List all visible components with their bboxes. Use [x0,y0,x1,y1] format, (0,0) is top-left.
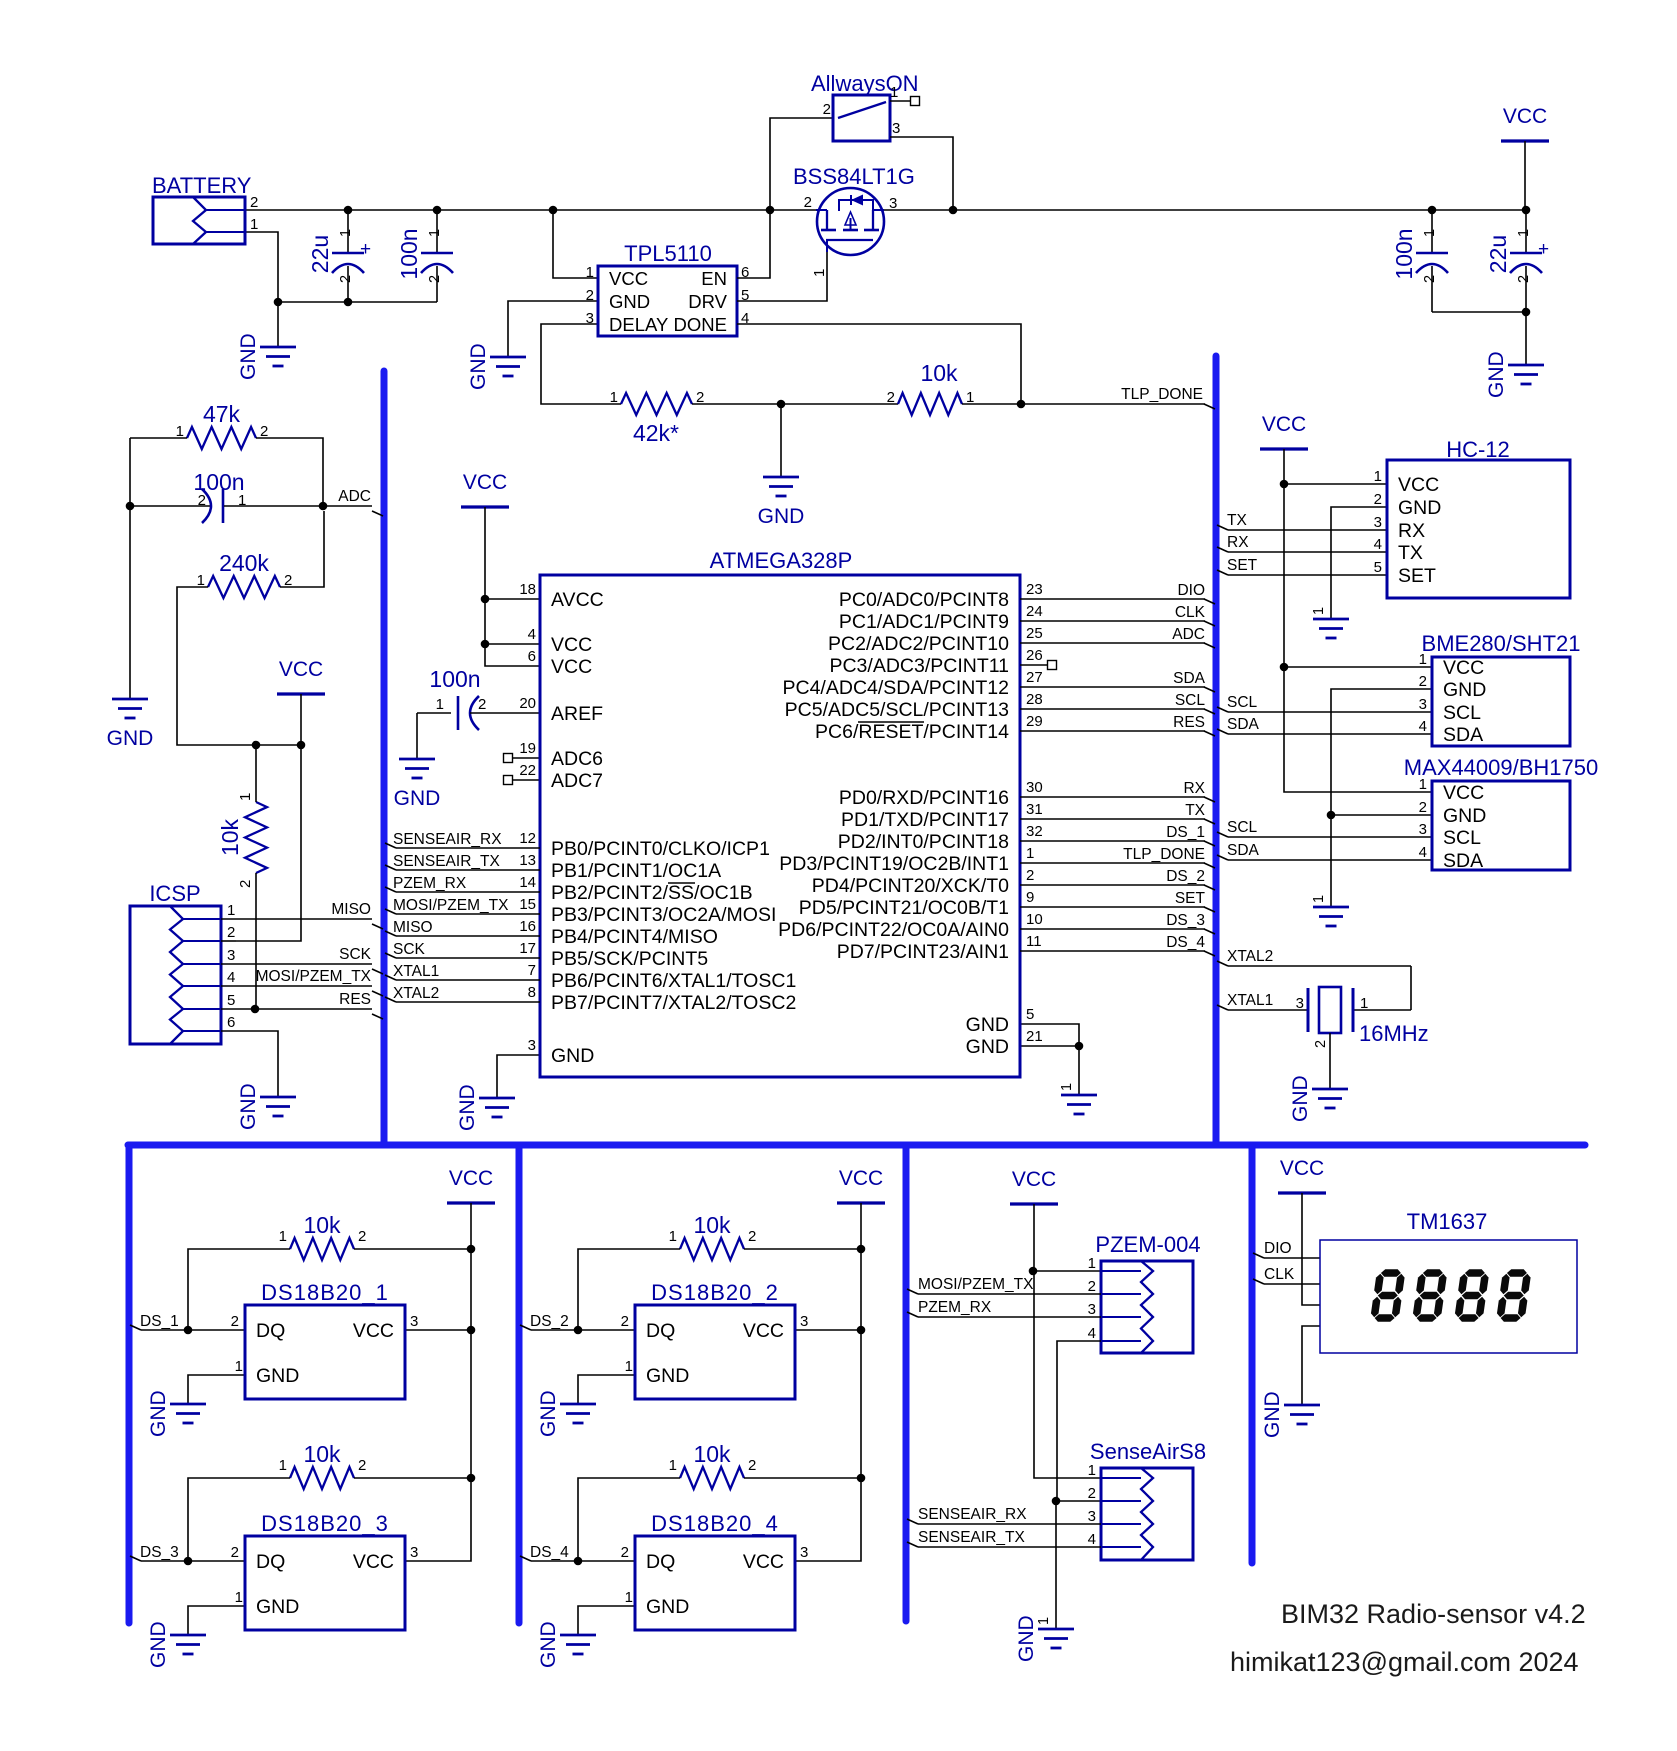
net label ADC (ATMEGA right) [1172,626,1205,643]
svg-text:himikat123@gmail.com 2024: himikat123@gmail.com 2024 [1230,1647,1579,1677]
junction rail/switch pin3 [949,206,958,215]
IC U5 MAX44009/BH1750 [1404,755,1598,872]
junction DQ DS_1 [184,1326,193,1335]
svg-text:1: 1 [1088,1255,1096,1272]
svg-text:PZEM_RX: PZEM_RX [393,875,467,892]
svg-text:CLK: CLK [1264,1266,1295,1283]
svg-text:1: 1 [610,389,618,406]
wire ATMEGA GND pin5 down [1020,1024,1079,1095]
svg-text:10k: 10k [693,1441,731,1467]
svg-text:PZEM_RX: PZEM_RX [918,1299,992,1316]
svg-text:GND: GND [467,343,490,390]
svg-text:BME280/SHT21: BME280/SHT21 [1422,631,1581,656]
svg-text:PB0/PCINT0/CLKO/ICP1: PB0/PCINT0/CLKO/ICP1 [551,838,770,860]
svg-text:RX: RX [1398,520,1425,542]
junction battery gnd node [274,298,283,307]
wire net CLK (TM1637) [1253,1279,1320,1284]
wire 22u bottom lead [347,266,349,302]
wire 100n right bottom lead [1431,266,1433,312]
junction 10k/RES [251,1005,260,1014]
net label XTAL1 [1227,992,1273,1009]
power VCC (DS18B20 DS_2/DS_4) [837,1167,885,1203]
svg-text:2: 2 [621,1544,629,1561]
svg-text:100n: 100n [1391,228,1417,279]
wire ICSP pin1 MISO to bus [221,919,383,929]
junction VCC pin3 1 [467,1326,476,1335]
wire net XTAL2 (ATMEGA left) [385,997,540,1002]
svg-text:22u: 22u [307,235,333,273]
svg-text:GND: GND [1443,805,1486,827]
wire 100n to ADC node [224,505,372,507]
svg-text:3: 3 [1419,821,1427,838]
wire ICSP pin2 stub [221,940,236,942]
svg-text:XTAL2: XTAL2 [1227,948,1273,965]
wire 240k pin1 down to VCC node [177,587,256,745]
wire net TX (ATMEGA right) [1020,819,1215,824]
svg-text:SCL: SCL [1443,827,1481,849]
wire VCC bar to rail [1524,141,1526,210]
svg-text:GND: GND [147,1621,170,1668]
junction VCC pin4 [481,640,490,649]
svg-text:2: 2 [586,287,594,304]
wire PZEM pin4 down to SenseAir pin2 [1057,1341,1101,1501]
svg-text:1: 1 [669,1457,677,1474]
wire 10k pin2 to VCC riser [354,1477,471,1479]
svg-text:SDA: SDA [1227,842,1260,859]
net label DS_4 (ATMEGA right) [1166,934,1205,951]
ground (battery) [237,333,296,380]
net label SDA (BME280) [1227,716,1260,733]
junction VCC/10k DS_4 [857,1474,866,1483]
wire to BME280 VCC pin1 [1284,666,1432,668]
power VCC (main rail) [1501,105,1549,141]
wire crystal pin2 to ground [1329,1033,1331,1089]
bus left vertical (ATMEGA left nets) [381,371,388,1145]
net label XTAL2 [1227,948,1273,965]
no-connect square ADC7 [504,776,513,785]
junction ADC node [319,502,328,511]
svg-text:2: 2 [1374,491,1382,508]
wire VCC to ICSP pin2 [236,745,301,941]
svg-text:DS_1: DS_1 [1166,824,1205,841]
IC U4 BME280/SHT21 [1419,631,1581,746]
wire VCC riser [860,1249,862,1478]
svg-text:PD5/PCINT21/OC0B/T1: PD5/PCINT21/OC0B/T1 [799,897,1009,919]
junction rail/100n right [1428,206,1437,215]
svg-text:MISO: MISO [393,919,433,936]
svg-text:1: 1 [250,216,258,233]
wire 10k pin2 to VCC riser [744,1477,861,1479]
wire TPL5110 EN pin6 to switch pin2 [737,118,833,278]
net label SET (HC-12) [1227,557,1258,574]
ground (SenseAir) [1015,1615,1074,1662]
svg-text:SDA: SDA [1443,724,1483,746]
svg-text:2: 2 [427,275,443,283]
svg-text:SET: SET [1227,557,1258,574]
svg-text:14: 14 [519,874,536,891]
svg-text:2: 2 [1419,799,1427,816]
svg-text:SENSEAIR_RX: SENSEAIR_RX [918,1506,1027,1523]
resistor 10k (RES pullup) [217,793,267,888]
svg-text:PB3/PCINT3/OC2A/MOSI: PB3/PCINT3/OC2A/MOSI [551,904,776,926]
bus bottom section divider 1 [126,1145,133,1623]
net label MOSI/PZEM_TX (PZEM) [918,1276,1034,1293]
svg-text:19: 19 [519,740,536,757]
svg-text:VCC: VCC [1443,782,1484,804]
wire GND pin1 to ground (bottom) [188,1606,245,1635]
svg-text:DS_4: DS_4 [530,1544,569,1561]
svg-text:20: 20 [519,695,536,712]
svg-text:5: 5 [227,992,235,1009]
svg-text:2: 2 [1026,867,1034,884]
junction 47k/100n/gnd [126,502,135,511]
power VCC (PZEM/SenseAir) [1010,1168,1058,1204]
wire 10k pin1 down to DQ [578,1249,680,1330]
svg-text:VCC: VCC [1443,657,1484,679]
wire net DS_1 from bus [130,1325,245,1330]
junction SenseAir pin2 [1052,1497,1061,1506]
svg-text:GND: GND [646,1365,689,1387]
svg-text:15: 15 [519,896,536,913]
wire VCC riser [470,1249,472,1478]
wire net SDA (MAX44009) [1217,855,1432,860]
svg-text:1: 1 [625,1358,633,1375]
svg-text:GND: GND [1485,351,1508,398]
svg-text:1: 1 [235,1358,243,1375]
wire VCC to MAX44009 VCC pin1 [1284,667,1432,792]
wire to HC-12 VCC pin1 [1284,483,1387,485]
svg-text:240k: 240k [219,550,269,576]
svg-text:GND: GND [456,1084,479,1131]
svg-text:6: 6 [528,648,536,665]
svg-text:GND: GND [107,727,154,750]
wire GND pin1 to ground [578,1375,635,1404]
svg-text:22: 22 [519,762,536,779]
svg-text:ADC: ADC [1172,626,1205,643]
svg-text:31: 31 [1026,801,1043,818]
power VCC (DS18B20 DS_1/DS_3) [447,1167,495,1203]
display U6 TM1637 [1320,1209,1577,1353]
svg-text:PB4/PCINT4/MISO: PB4/PCINT4/MISO [551,926,718,948]
connector BATTERY [152,173,258,244]
svg-text:RES: RES [1173,714,1205,731]
junction DQ DS_3 [184,1557,193,1566]
wire 42k pin2 to 10k pin2 [692,403,898,405]
svg-text:VCC: VCC [1503,105,1547,128]
wire ATMEGA GND pin3 to ground [497,1055,540,1098]
wire 100n right top lead [1431,210,1433,254]
wire down to ground (SenseAir) [1055,1501,1057,1629]
svg-text:2: 2 [250,194,258,211]
svg-text:BATTERY: BATTERY [152,173,252,198]
svg-text:DQ: DQ [256,1320,285,1342]
resistor 240k [197,550,293,598]
svg-text:DQ: DQ [646,1320,675,1342]
svg-text:PC1/ADC1/PCINT9: PC1/ADC1/PCINT9 [839,611,1009,633]
svg-text:RES: RES [339,991,371,1008]
svg-text:GND: GND [394,787,441,810]
svg-text:PC2/ADC2/PCINT10: PC2/ADC2/PCINT10 [828,633,1009,655]
svg-text:1: 1 [235,1589,243,1606]
wire VCC to SenseAir pin1 [1034,1271,1101,1478]
svg-text:VCC: VCC [551,656,592,678]
svg-text:SCK: SCK [393,941,426,958]
svg-text:1: 1 [1516,229,1532,237]
wire down to ground (divider) [129,506,131,699]
wire net SENSEAIR_RX (ATMEGA left) [385,843,540,848]
svg-text:3: 3 [800,1544,808,1561]
svg-text:TX: TX [1185,802,1205,819]
bus bottom horizontal [128,1142,1585,1149]
wire VCC node join [256,744,301,746]
wire net DS_1 (ATMEGA right) [1020,841,1215,846]
wire net SDA (BME280) [1217,729,1432,734]
no-connect square pin26 [1048,661,1057,670]
wire VCC bar down (PZEM) [1033,1204,1035,1271]
wire net DIO (ATMEGA right) [1020,599,1215,604]
ground (HC-12) [1311,607,1349,638]
net label DS_3 (ATMEGA right) [1166,912,1205,929]
svg-text:10k: 10k [303,1212,341,1238]
wire caps bottom join [1432,311,1526,313]
ground (crystal) [1289,1075,1348,1122]
net label SDA (MAX44009) [1227,842,1260,859]
svg-text:VCC: VCC [839,1167,883,1190]
power VCC (divider) [277,658,325,694]
svg-text:PD2/INT0/PCINT18: PD2/INT0/PCINT18 [838,831,1009,853]
wire net XTAL2 (crystal) [1217,961,1411,1010]
capacitor 22u (VCC) [1485,229,1549,283]
bus bottom section divider 3 [903,1145,910,1621]
junction VCC HC-12 [1280,480,1289,489]
svg-text:DQ: DQ [646,1551,675,1573]
svg-text:SenseAirS8: SenseAirS8 [1090,1439,1206,1464]
svg-text:ADC: ADC [338,488,371,505]
svg-text:SENSEAIR_TX: SENSEAIR_TX [918,1529,1025,1546]
svg-text:HC-12: HC-12 [1446,437,1510,462]
wire TM1637 GND to ground [1302,1326,1320,1405]
wire 22u right bottom lead [1525,266,1527,312]
wire ADC6 stub [513,757,540,759]
svg-text:GND: GND [237,333,260,380]
net label TLP_DONE [1121,386,1203,403]
svg-text:DS18B20_1: DS18B20_1 [261,1280,389,1305]
svg-text:3: 3 [1088,1301,1096,1318]
svg-text:TX: TX [1227,512,1247,529]
wire net RX (ATMEGA right) [1020,797,1215,802]
ground (ATMEGA pins 5/21) [1059,1083,1097,1114]
capacitor 100n (VCC) [1391,228,1448,283]
ground (TPL5110) [467,343,526,390]
svg-text:42k*: 42k* [633,420,679,446]
svg-text:GND: GND [1015,1615,1038,1662]
bus bottom section divider 2 [516,1145,523,1623]
connector J1 ICSP [130,881,235,1044]
wire net PZEM_RX (PZEM) [907,1312,1101,1317]
wire net XTAL1 (crystal) [1217,1005,1308,1010]
ground (DS18B20_2) [537,1390,596,1437]
wire net SCL (MAX44009) [1217,832,1432,837]
svg-text:SENSEAIR_TX: SENSEAIR_TX [393,853,500,870]
connector PZEM-004 [1088,1232,1201,1353]
capacitor 100n (ADC filter) [202,489,223,523]
svg-text:2: 2 [338,275,354,283]
svg-text:GND: GND [256,1365,299,1387]
svg-text:PD6/PCINT22/OC0A/AIN0: PD6/PCINT22/OC0A/AIN0 [778,919,1009,941]
wire switch pin3 to rail [890,137,953,210]
svg-text:TLP_DONE: TLP_DONE [1121,386,1203,403]
svg-text:GND: GND [1289,1075,1312,1122]
wire net SENSEAIR_RX (SenseAir) [907,1519,1101,1524]
svg-text:GND: GND [237,1083,260,1130]
wire net RX (HC-12) [1217,547,1387,552]
svg-text:9: 9 [1026,889,1034,906]
svg-text:BSS84LT1G: BSS84LT1G [793,164,915,189]
wire 47k pin1 left [130,437,187,439]
wire 10k bottom lead to RES [255,873,257,1009]
wire net DS_3 from bus [130,1556,245,1561]
svg-text:1: 1 [1374,468,1382,485]
svg-text:2: 2 [231,1544,239,1561]
svg-text:VCC: VCC [1398,474,1439,496]
svg-text:SENSEAIR_RX: SENSEAIR_RX [393,831,502,848]
svg-text:DRV: DRV [688,291,727,312]
net label DS_4 [530,1544,569,1561]
junction rail/22u right [1522,206,1531,215]
svg-text:SDA: SDA [1173,670,1206,687]
net label DS_1 [140,1313,179,1330]
net label TX (HC-12) [1227,512,1247,529]
svg-text:MOSI/PZEM_TX: MOSI/PZEM_TX [393,897,509,914]
svg-text:SCL: SCL [1227,694,1258,711]
svg-text:10k: 10k [693,1212,731,1238]
wire 22u right top lead [1525,210,1527,254]
svg-text:2: 2 [478,696,486,713]
wire net ADC to bus [372,511,383,516]
svg-text:SET: SET [1175,890,1206,907]
svg-text:GND: GND [758,505,805,528]
svg-text:MAX44009/BH1750: MAX44009/BH1750 [1404,755,1598,780]
svg-text:100n: 100n [396,228,422,279]
wire net DS_3 (ATMEGA right) [1020,929,1215,934]
resistor 10k (DS_3 pullup) [279,1441,367,1489]
svg-text:4: 4 [1374,536,1382,553]
IC U_DS18B20_4 [621,1511,809,1630]
svg-text:TX: TX [1398,542,1423,564]
wire HC-12 GND pin2 to ground [1331,507,1387,619]
net label RX (HC-12) [1227,534,1249,551]
resistor 10k (DONE) [887,360,975,415]
ground (delay divider) [758,477,805,528]
wire 10k pin1 down to DQ [578,1478,680,1561]
svg-text:VCC: VCC [463,471,507,494]
svg-text:1: 1 [890,84,898,101]
svg-text:1: 1 [436,696,444,713]
svg-text:MOSI/PZEM_TX: MOSI/PZEM_TX [918,1276,1034,1293]
junction 22u bottom/gnd [1522,308,1531,317]
svg-text:2: 2 [823,101,831,118]
svg-text:2: 2 [237,880,254,888]
svg-text:DELAY: DELAY [609,314,668,335]
svg-text:2: 2 [227,924,235,941]
svg-text:GND: GND [147,1390,170,1437]
wire net DS_4 (ATMEGA right) [1020,951,1215,956]
title text BIM32 [1281,1599,1586,1629]
net label SET (ATMEGA right) [1175,890,1206,907]
svg-text:5: 5 [1026,1006,1034,1023]
svg-text:3: 3 [586,310,594,327]
svg-text:VCC: VCC [551,634,592,656]
wire ICSP pin3 SCK to bus [221,964,383,974]
svg-text:SDA: SDA [1227,716,1260,733]
wire 10k pin1 right [962,403,1021,405]
resistor 47k [176,401,269,449]
svg-text:DS_4: DS_4 [1166,934,1205,951]
wire VCC bar down [470,1203,472,1249]
wire BME280 GND pin2 down [1331,689,1432,815]
svg-text:AVCC: AVCC [551,589,604,611]
svg-text:12: 12 [519,830,536,847]
svg-text:SCL: SCL [1175,692,1206,709]
svg-text:PC5/ADC5/SCL/PCINT13: PC5/ADC5/SCL/PCINT13 [785,699,1009,721]
wire net SCL (BME280) [1217,707,1432,712]
svg-text:EN: EN [701,268,727,289]
IC U_DS18B20_3 [231,1511,419,1630]
svg-text:2: 2 [748,1457,756,1474]
ground (TM1637) [1261,1391,1320,1438]
author text [1230,1647,1579,1677]
svg-text:1: 1 [1088,1462,1096,1479]
svg-text:XTAL2: XTAL2 [393,985,439,1002]
svg-text:1: 1 [1419,651,1427,668]
wire net MISO (ATMEGA left) [385,931,540,936]
IC U_DS18B20_2 [621,1280,809,1399]
wire VCC to ATMEGA VCC pin6 [485,507,540,666]
svg-text:1: 1 [237,793,254,801]
svg-text:VCC: VCC [1262,413,1306,436]
net label TX (ATMEGA right) [1185,802,1205,819]
wire 240k pin2 up to ADC node [280,511,324,587]
svg-text:DIO: DIO [1177,582,1205,599]
svg-text:100n: 100n [429,666,480,692]
svg-text:GND: GND [609,291,650,312]
junction rail/EN riser [766,206,775,215]
svg-text:PD4/PCINT20/XCK/T0: PD4/PCINT20/XCK/T0 [812,875,1009,897]
resistor 42k* [610,389,705,446]
junction VCC PZEM pin1 [1029,1267,1038,1276]
net label SENSEAIR_TX (ATMEGA left) [393,853,500,870]
net label MOSI/PZEM_TX (ICSP) [256,968,372,985]
net label SCK (ICSP) [339,946,372,963]
wire ground return under caps [278,301,437,303]
wire net SENSEAIR_TX (SenseAir) [907,1542,1101,1547]
wire VCC pin3 to riser [405,1329,471,1331]
wire VCC pin3 to riser (bottom) [795,1478,861,1561]
svg-text:PD7/PCINT23/AIN1: PD7/PCINT23/AIN1 [837,941,1009,963]
net label RES (ATMEGA right) [1173,714,1205,731]
junction DQ DS_2 [574,1326,583,1335]
net label TLP_DONE (ATMEGA right) [1123,846,1205,863]
svg-text:32: 32 [1026,823,1043,840]
junction AVCC [481,595,490,604]
svg-text:VCC: VCC [743,1551,784,1573]
svg-text:GND: GND [537,1621,560,1668]
wire switch pin1 stub [890,100,911,102]
wire 10k pin1 down to DQ [188,1249,290,1330]
svg-text:GND: GND [966,1036,1009,1058]
junction rail/TPL5110 VCC [549,206,558,215]
svg-text:2: 2 [1313,1040,1329,1048]
